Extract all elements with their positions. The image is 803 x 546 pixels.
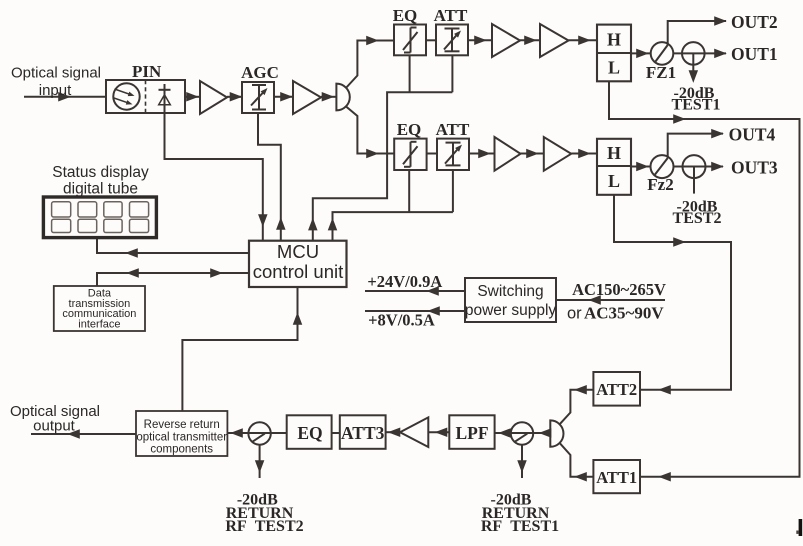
svg-text:OUT4: OUT4 [729,124,776,144]
wire MCU to reverse optical transmitter [182,287,297,411]
wire H/L row2 low band to ATT2 [614,195,731,390]
wire EQ to ATT row1 [426,39,436,41]
attenuator ATT2 [593,372,640,406]
splitter SP1 [336,84,349,111]
attenuator ATT row2 [437,139,469,170]
wire A6 to H/L filter row2 [571,153,597,155]
wire AC input [556,299,665,301]
MCU control unit U2 [249,241,347,287]
wire TP4 test drop [521,445,523,478]
amplifier A7 reverse [400,417,428,447]
wire LPF to amplifier [428,431,449,433]
attenuator ATT row1 [436,25,468,56]
wire Fz2 tap to OUT4 [668,134,723,158]
svg-text:or: or [567,305,582,323]
svg-text:H: H [607,30,621,50]
svg-text:L: L [608,171,620,191]
amplifier A5 [495,137,521,171]
svg-text:RF TEST2: RF TEST2 [225,518,303,535]
test coupler TP1 [682,42,705,65]
wire +8V output [365,310,465,312]
svg-text:digital tube: digital tube [63,181,138,198]
wire optical signal input [24,96,106,98]
wire MCU to AGC [258,113,281,241]
wire MCU to EQ/ATT row2 [408,170,410,212]
svg-text:LPF: LPF [455,423,488,443]
wire H/L to FZ1 and OUT1 [631,52,726,54]
wire A2 to splitter [321,96,336,98]
directional coupler Fz2 [651,155,674,178]
wire EQ to ATT row2 [427,153,437,155]
svg-text:ATT2: ATT2 [596,380,637,399]
svg-text:optical transmitter: optical transmitter [136,431,227,443]
svg-text:control unit: control unit [253,261,344,282]
combiner SP2 [550,420,563,446]
H/L diplex filter row2 [597,139,631,195]
wire A5 to A6 [521,153,544,155]
amplifier A4 [540,24,569,57]
svg-text:AC35~90V: AC35~90V [584,304,664,323]
svg-text:ATT3: ATT3 [341,423,385,443]
attenuator ATT1 [593,460,640,493]
attenuator ATT3 [340,415,386,449]
low pass filter LPF [449,415,494,449]
wire amplifier to ATT3 [386,431,400,433]
svg-text:FZ1: FZ1 [646,63,676,82]
svg-text:input: input [39,82,72,99]
return test coupler TP4 [511,422,533,444]
switching power supply U3 [465,278,556,322]
wire FZ1 tap to OUT2 [668,21,726,45]
wire EQ to ATT3 [332,432,340,434]
svg-text:+8V/0.5A: +8V/0.5A [368,311,435,330]
svg-text:EQ: EQ [393,6,418,25]
wire ATT row1 to amplifier A3 [468,39,492,41]
wire ATT1 to combiner [560,443,594,477]
data transmission communication interface [54,286,145,331]
wire TP3 test drop [259,445,261,478]
wire coupler to reverse transmitter [227,432,286,434]
svg-text:Status display: Status display [52,164,149,181]
wire MCU to data interface [97,273,249,286]
directional coupler FZ1 [651,42,674,65]
wire ATT2 to combiner [560,390,594,425]
svg-text:ATT1: ATT1 [596,468,637,487]
wire optical signal output [31,433,136,435]
amplifier A2 [293,81,321,114]
equalizer EQ row2 [394,139,426,170]
wire H/L to Fz2 and OUT3 [631,166,723,168]
wire MCU to status display [97,238,249,254]
test coupler TP2 [683,155,706,178]
svg-text:MCU: MCU [277,241,319,262]
wire splitter to EQ row1 [346,41,394,89]
svg-text:Switching: Switching [477,283,543,300]
svg-text:+24V/0.9A: +24V/0.9A [367,272,442,291]
wire coupler TP4 to LPF [495,432,534,434]
svg-text:Fz2: Fz2 [647,175,673,194]
wire H/L row1 low band to ATT1 [609,81,800,476]
wire combiner to TP4 [533,432,550,434]
svg-text:L: L [608,58,620,78]
return test coupler TP3 [248,422,270,444]
svg-text:AGC: AGC [241,63,279,82]
equalizer EQ return [287,415,332,449]
svg-text:ATT: ATT [434,6,468,25]
svg-text:TEST1: TEST1 [672,96,721,113]
svg-text:Optical signal: Optical signal [11,65,101,82]
wire +24V output [365,290,465,292]
svg-text:AC150~265V: AC150~265V [572,280,666,299]
svg-text:OUT2: OUT2 [731,12,778,32]
wire AGC to amplifier A2 [274,96,293,98]
amplifier A1 [200,81,227,114]
svg-text:EQ: EQ [397,120,422,139]
svg-text:power supply: power supply [465,302,557,319]
amplifier A3 [492,24,520,57]
wire splitter to EQ row2 [346,106,394,153]
svg-text:components: components [150,443,213,455]
svg-text:OUT1: OUT1 [731,44,778,64]
AGC attenuator U1 [242,82,274,113]
wire ATT row2 to amplifier A5 [469,153,495,155]
diode D1 inside PIN [159,89,171,91]
corner mark [799,519,803,536]
wire PIN diode to MCU [165,113,263,241]
svg-text:Reverse return: Reverse return [144,419,220,431]
wire A1 to AGC [227,96,242,98]
svg-text:H: H [607,143,621,163]
svg-text:PIN: PIN [132,62,162,81]
svg-text:output: output [33,418,76,435]
svg-text:ATT: ATT [436,120,470,139]
svg-text:EQ: EQ [297,423,322,443]
svg-text:RF TEST1: RF TEST1 [481,518,559,535]
photodiode module PIN [106,80,185,113]
svg-text:TEST2: TEST2 [673,210,722,227]
wire PIN to amplifier [185,96,200,98]
wire A3 to A4 [520,39,540,41]
status display digital tube [43,197,156,238]
H/L diplex filter row1 [597,25,631,82]
reverse return optical transmitter components [136,411,227,456]
equalizer EQ row1 [394,25,426,56]
svg-text:interface: interface [78,318,120,330]
wire A4 to H/L filter row1 [569,39,598,41]
svg-text:OUT3: OUT3 [731,157,778,177]
wire MCU to EQ/ATT row1 [409,55,411,92]
amplifier A6 [544,137,571,171]
